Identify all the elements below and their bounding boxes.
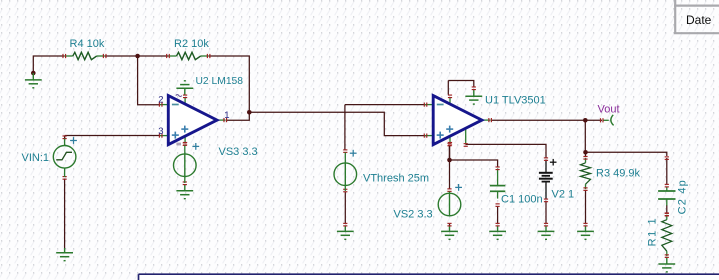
svg-text:3: 3 [158, 126, 163, 137]
svg-text:C1 100n: C1 100n [501, 194, 543, 206]
svg-text:V2 1: V2 1 [552, 189, 575, 201]
svg-text:R2 10k: R2 10k [174, 38, 209, 50]
svg-text:VS2 3.3: VS2 3.3 [394, 209, 433, 221]
svg-text:VThresh 25m: VThresh 25m [363, 172, 429, 184]
svg-text:VS3 3.3: VS3 3.3 [219, 146, 258, 158]
svg-text:U1 TLV3501: U1 TLV3501 [485, 95, 546, 107]
svg-text:R1 1: R1 1 [646, 217, 658, 247]
svg-text:R4 10k: R4 10k [70, 38, 105, 50]
svg-text:R3 49.9k: R3 49.9k [596, 168, 641, 180]
svg-text:1: 1 [224, 110, 229, 121]
svg-text:U2 LM158: U2 LM158 [196, 76, 244, 87]
svg-text:2: 2 [158, 95, 163, 106]
svg-text:C2 4p: C2 4p [677, 179, 689, 214]
svg-text:Date: Date [686, 13, 712, 27]
svg-text:VIN:1: VIN:1 [22, 152, 50, 164]
svg-text:Vout: Vout [598, 103, 620, 115]
